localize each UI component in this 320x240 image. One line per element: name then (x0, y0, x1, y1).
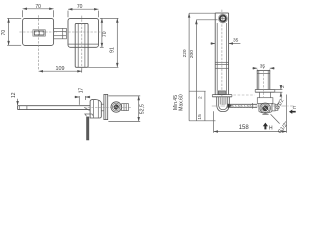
horizontal connecting pipe (229, 103, 257, 105)
svg-text:H: H (269, 125, 273, 131)
column joints (215, 61, 228, 63)
right column centerline (263, 67, 265, 97)
svg-text:70: 70 (77, 4, 83, 10)
left square plate (23, 18, 54, 45)
stem between body and escutcheon (101, 103, 104, 105)
dim 70 left side: extension + dimension line (7, 17, 21, 19)
wall face line (204, 91, 206, 121)
Min/Max top bar (189, 90, 206, 92)
right valve circles (260, 103, 270, 113)
centerlines of front view (19, 15, 101, 70)
bottom port (H) (262, 112, 268, 114)
svg-text:35: 35 (260, 63, 266, 69)
dim 220 (189, 12, 215, 14)
inner bevel line of right plate (68, 43, 98, 45)
flange (right) (255, 89, 275, 91)
svg-text:70: 70 (102, 31, 108, 37)
flange (left) (212, 94, 232, 96)
svg-text:17: 17 (79, 88, 85, 94)
Min/Max bottom dimension line (189, 120, 215, 122)
dim 91: extension + dimension line (104, 17, 119, 19)
dim 200 (196, 19, 217, 21)
svg-text:200: 200 (189, 50, 195, 58)
trim body (side) (90, 100, 101, 119)
left supply column (214, 13, 216, 95)
dim 70 right side: extension + dimension line (100, 17, 104, 19)
dim 70 top-right: extension lines (67, 11, 69, 18)
handle lever (side, hanging) (87, 117, 89, 140)
svg-text:C: C (293, 105, 297, 111)
hot inlet arrow H (263, 123, 268, 130)
svg-text:Max.60: Max.60 (178, 94, 184, 111)
dim 2 (right flange) (275, 89, 283, 91)
dim 70 top-left: extension lines (22, 10, 24, 17)
svg-text:12: 12 (11, 92, 17, 98)
leader to lower G1/2 (271, 114, 280, 123)
valve body below right flange (258, 92, 260, 98)
elbow below flange (217, 97, 230, 112)
svg-text:35: 35 (233, 37, 239, 43)
connector block between plates (54, 28, 67, 38)
port stub right of valve (122, 104, 129, 111)
flow arrow on pipe (228, 103, 233, 108)
nut on column bottom (218, 91, 225, 94)
concealed valve (circles) (111, 102, 121, 112)
top port circle (218, 14, 227, 23)
valve side blocks (258, 103, 260, 111)
svg-text:2: 2 (198, 96, 204, 99)
svg-text:109: 109 (56, 66, 65, 72)
svg-text:220: 220 (182, 49, 188, 57)
dim 52.5 (108, 95, 140, 97)
right port stub (272, 104, 275, 111)
dim 17 (78, 96, 80, 105)
svg-text:2: 2 (280, 85, 286, 88)
svg-text:158: 158 (239, 125, 250, 131)
handle lever (front) (75, 23, 88, 67)
dim 70 top-left: dimension line (23, 8, 54, 10)
dim 109: extension + dimension line (81, 67, 83, 72)
spout (side) (18, 105, 91, 107)
svg-text:15: 15 (197, 114, 203, 120)
spout outlet on left plate (33, 30, 45, 36)
left column centerline (221, 10, 223, 98)
escutcheon (edge-on) (104, 94, 108, 119)
pipe centerline (212, 105, 294, 107)
right square plate (68, 18, 99, 47)
dim 158 (213, 111, 215, 133)
centerline of trim side view (84, 107, 131, 109)
svg-text:70: 70 (35, 4, 41, 10)
wall dashed line between flanges (233, 94, 254, 96)
dim 12 (17, 99, 19, 106)
svg-text:91: 91 (110, 47, 116, 53)
svg-text:70: 70 (1, 30, 7, 36)
dim 35 (right column) (256, 69, 258, 71)
right supply column (256, 70, 258, 89)
svg-text:52,5: 52,5 (139, 104, 145, 114)
cold inlet arrow C (289, 110, 296, 114)
dim 70 top-right: dimension line (68, 8, 99, 10)
dim 35 on left column (211, 43, 216, 45)
